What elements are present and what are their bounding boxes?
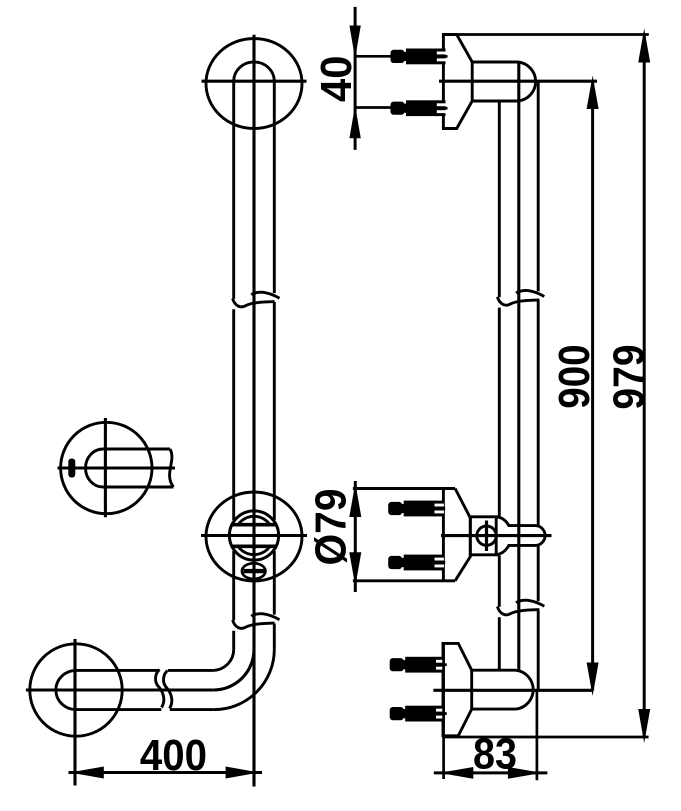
dim d79 arrow top [349,483,361,517]
bottom mount stub top edge [472,669,516,672]
dim 900 line [591,81,594,690]
horizontal tube top edge [76,669,213,672]
dim 900 arrow bottom [587,663,599,697]
middle mount neck box [470,517,496,555]
svg-text:83: 83 [473,729,517,778]
top tube dome cap [234,62,275,81]
dim 83 extension left [442,643,445,779]
horizontal tube bottom edge [76,708,213,711]
detail screw blob [68,459,75,478]
clamp inner arc bottom [238,546,270,554]
middle flange circle [206,492,302,581]
top stud upper [391,49,448,65]
middle mount plate rect top [353,487,455,490]
dim 979 line [643,35,646,738]
top mount dome cap [518,62,536,101]
dim 400 extension left [74,737,77,786]
right tube left edge [498,101,501,670]
svg-text:900: 900 [550,345,599,409]
dim 900 arrow top [587,76,599,110]
dim 979/83 extension bottom [443,736,649,739]
clamp screw slot [244,569,265,573]
middle stud upper [388,501,445,517]
middle mount plate face [442,489,445,581]
vertical tube left edge (upper) [232,81,235,649]
bottom stud upper [390,657,447,673]
top mount centerline [439,80,597,83]
dim 400 arrow right [226,767,260,779]
middle mount cone [455,489,470,581]
bottom mount plate and cone [443,643,472,735]
svg-text:Ø79: Ø79 [307,489,356,566]
detail horizontal centerline [58,466,176,469]
bend outer arc [213,649,274,709]
tube break upper [233,292,280,307]
svg-text:400: 400 [140,731,207,780]
dim 979 arrow top [638,29,650,63]
dim 40 arrow upper [349,26,360,59]
middle mount plate rect bottom [353,579,455,582]
middle flange horizontal centerline [201,534,307,537]
detail stub bottom edge [103,486,174,489]
top flange horizontal centerline [202,80,307,83]
middle mount screw circle [477,526,496,545]
detail vertical centerline [104,418,107,517]
right tube break lower [497,600,544,615]
bottom mount dome cap [516,670,533,709]
clamp screw ellipse [242,563,266,579]
svg-text:979: 979 [605,344,654,409]
top mount plate and cone [443,35,472,129]
dim 40 arrow lower [349,105,360,138]
right tube break upper [497,290,544,305]
bottom flange circle [30,644,122,736]
svg-text:40: 40 [312,56,361,102]
dim 400 line [69,771,263,774]
bottom flange vertical centerline [73,639,76,786]
middle mount centerline [441,534,552,537]
top mount stub bottom edge [472,100,518,103]
top mount stub top edge [472,61,518,64]
bottom flange horizontal centerline [26,688,213,691]
tube break lower (above bend) [233,614,280,629]
clamp inner arc top [238,516,270,524]
detail stub cap arc [86,449,103,487]
bend center arc [213,649,254,690]
bend inner arc [213,649,233,670]
dim 83 extension right [536,691,539,780]
middle clamp ring [229,511,278,560]
detail flange circle [61,422,152,513]
top flange circle [206,39,302,129]
dim 979 extension top [457,33,649,36]
clamp bottom bar [232,544,277,548]
dim 40 extension lines [355,56,390,107]
middle mount stub with dome [496,517,545,555]
dim 83 arrow right [508,767,542,779]
dim 400 arrow left [70,767,104,779]
right tube centerline [517,62,520,670]
detail stub break curve [170,449,174,487]
dim 40 line [354,7,357,150]
middle stud lower [388,555,445,571]
bottom mount centerline [433,689,592,692]
right tube right edge [537,82,540,692]
dim 83 line [434,771,548,774]
horizontal tube break [156,670,172,709]
detail stub top edge [103,448,170,451]
middle mount screw slot [485,521,488,552]
dim 83 arrow left [439,767,473,779]
bottom tube dome cap [56,670,76,709]
clamp top bar [232,523,277,527]
dim 979 arrow bottom [638,709,650,743]
dim d79 line [354,481,357,592]
top stud lower [391,100,448,116]
bottom stud lower [390,706,447,722]
dim d79 arrow bottom [349,552,361,586]
main vertical centerline [252,35,255,787]
vertical tube right edge (upper) [273,81,276,649]
bottom mount stub bottom edge [472,708,516,711]
